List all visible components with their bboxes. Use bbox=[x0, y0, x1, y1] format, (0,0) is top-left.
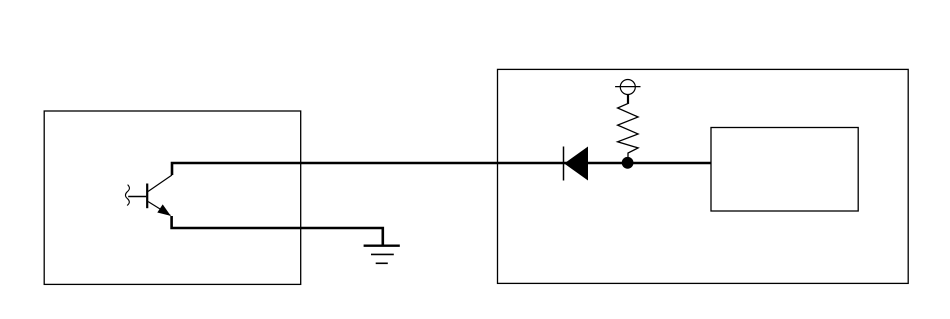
emitter lead bbox=[148, 202, 171, 216]
wire: collector to diode and load (net at y=163) bbox=[172, 163, 711, 175]
diode D1 bbox=[564, 147, 589, 181]
wire: emitter to ground bbox=[172, 216, 383, 246]
power symbol (circle supply terminal) bbox=[615, 80, 640, 104]
inner box (load block) bbox=[711, 128, 858, 212]
left box (transistor device outline) bbox=[44, 111, 301, 284]
collector lead bbox=[148, 175, 172, 192]
cathode bar bbox=[563, 147, 565, 181]
ground symbol bbox=[364, 246, 400, 264]
base bar bbox=[146, 184, 148, 209]
resistor R1 (pull-up) bbox=[618, 95, 639, 158]
base lead wire bbox=[128, 196, 146, 198]
anode triangle bbox=[564, 147, 588, 181]
emitter arrow bbox=[157, 204, 171, 216]
transistor Q1 bbox=[125, 175, 172, 216]
base squiggle lead bbox=[125, 185, 129, 206]
right box (driver circuit outline) bbox=[498, 69, 909, 283]
junction node dot bbox=[622, 157, 634, 169]
